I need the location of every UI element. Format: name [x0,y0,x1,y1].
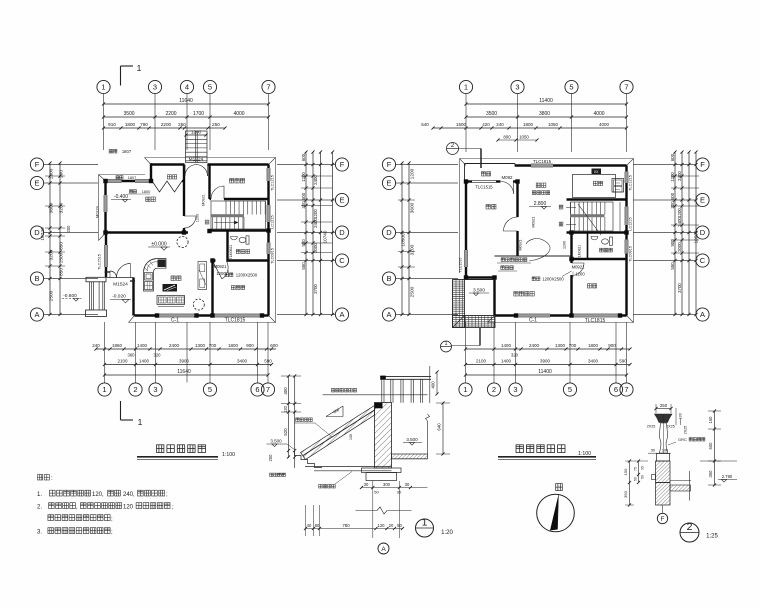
svg-text:3: 3 [515,83,519,92]
dimension chain 910/1800/790/2200/250/250 (top) [104,127,226,129]
grid bubbles top (left plan) [97,80,110,93]
svg-text:1:100: 1:100 [578,451,591,457]
svg-text:2X25: 2X25 [647,425,656,429]
svg-text:900: 900 [608,343,616,348]
grid bubbles left (left plan) [30,158,43,171]
svg-text:800: 800 [503,135,511,140]
column squares (left plan) [103,179,107,183]
svg-text:780: 780 [342,523,350,528]
label up (stairs) [559,222,563,226]
svg-text:250: 250 [212,122,220,127]
detail1 slope triangle 600 [326,416,343,418]
svg-text:GRC: GRC [678,437,687,442]
dimension chain left inner 200/3200/850/1500/850 [59,163,61,315]
svg-text:1200: 1200 [216,271,226,276]
detail2 lower pier hatched [656,483,671,506]
grid extension lines top (right plan) [465,94,467,152]
svg-text:11640: 11640 [179,98,193,104]
detail1 newel cap [380,376,386,380]
kitchen counter [144,259,167,292]
detail1 handrail [380,375,431,377]
svg-text:40: 40 [307,523,312,528]
void railing line [495,255,572,257]
wall tool-room bottom with door [210,198,212,200]
leader curve railing [526,239,550,261]
room label storage [167,175,176,179]
detail1 left dim chains [288,376,290,458]
wall bathroom left [226,231,228,262]
dimension 1200 entry [186,134,206,136]
svg-text:M0921: M0921 [519,240,523,251]
svg-text:1: 1 [101,83,105,92]
wall top (right plan) with window TLC1815 [515,164,627,166]
detail2 vase baluster [659,423,667,453]
dimension chain 3500/2200/1700/4000 (top) [104,116,269,118]
svg-text:2400: 2400 [313,175,318,185]
dimension chain bottom row2 (right plan) [466,364,631,366]
svg-text:TLC1215: TLC1215 [271,175,275,191]
svg-text:3900: 3900 [179,359,190,364]
svg-text:B: B [34,274,39,283]
svg-text:700: 700 [569,343,577,348]
detail1 node circle A [378,543,389,554]
detail1 right boundary upper [429,366,431,403]
dimension chain bottom 11640 [105,374,269,376]
wall right (left plan) with windows [267,165,269,316]
detail1 bottom dim row 40/80/780/120/20/50 [306,528,403,530]
svg-text:2400: 2400 [677,217,682,227]
dimension chains right of right plan [674,152,676,315]
svg-text:1200: 1200 [301,172,306,182]
title ground floor plan [157,445,206,453]
dimension chain 3500/3800/4000 (top right plan) [466,116,627,118]
detail2 right dim chain [714,411,716,485]
stairs (left plan) [211,201,266,229]
detail2 number circle 2 1:25 [680,523,699,542]
svg-text:7: 7 [624,83,628,92]
svg-text:1200: 1200 [677,208,682,218]
door M092 [501,182,514,195]
svg-text:1050: 1050 [548,122,559,127]
svg-text:7: 7 [266,83,270,92]
detail2 rail pier hatched [656,461,671,483]
detail2 node circle F [657,513,667,523]
wall garage top with high windows [105,180,153,182]
detail1 ramp band hatched [301,406,375,460]
dimension 400 vertical (right plan bottom left) [436,372,438,394]
svg-text:100: 100 [662,449,668,453]
svg-text:TLM0821: TLM0821 [229,245,233,260]
svg-text:120: 120 [378,523,386,528]
svg-text:50: 50 [634,477,638,481]
svg-text:LC1215: LC1215 [629,217,633,230]
room label bathroom (right plan) [600,248,613,252]
svg-text:1807: 1807 [128,176,136,180]
svg-text:M0921: M0921 [214,264,227,269]
svg-text:4000: 4000 [599,122,610,127]
svg-text:3200: 3200 [59,202,65,213]
svg-text:320: 320 [154,353,162,358]
grid extension lines right (left plan) [277,164,336,166]
room label kitchen [593,181,602,185]
dimension chain bottom row1 (right plan) [466,348,631,350]
room label bathroom [236,250,249,254]
wall corridor vertical [570,233,572,264]
svg-text:600: 600 [270,343,278,348]
svg-text:240: 240 [92,343,100,348]
svg-text:1: 1 [102,385,106,394]
wall nanny-room top with door [213,259,216,261]
svg-text:5: 5 [568,385,572,394]
svg-text:200: 200 [66,225,71,233]
detail1 stair wall hatched [375,403,392,469]
svg-text:A: A [386,310,391,319]
stair break line [578,204,601,235]
wall storage left [150,163,152,181]
svg-text:3500: 3500 [486,111,497,117]
svg-text:B: B [386,274,391,283]
svg-text:50: 50 [651,449,655,453]
grid extension lines left (right plan) [396,164,458,166]
detail1 footing [362,468,402,473]
toilet (right plan) [602,239,609,244]
room label nanny [231,286,244,290]
svg-text:400: 400 [431,381,436,389]
svg-text:3900: 3900 [540,359,551,364]
dimension chain bottom 11400 [466,374,627,376]
label high window 1800 [130,190,137,193]
notes heading [38,475,50,481]
svg-text:300: 300 [383,482,391,487]
svg-text:2X25: 2X25 [684,426,688,435]
svg-text:3: 3 [153,385,157,394]
svg-text:5: 5 [208,385,212,394]
room label bedroom1 [486,204,496,209]
svg-text:2.: 2. [37,505,42,511]
svg-text:TLC1215: TLC1215 [629,175,633,191]
svg-text:3.500: 3.500 [473,288,485,294]
grid extension lines right (right plan) [633,164,696,166]
svg-text:1400: 1400 [137,343,148,348]
svg-text:2000: 2000 [677,242,682,252]
note 2 line2 [48,515,110,521]
door M0921 bedroom2 [572,263,585,276]
svg-text:2: 2 [687,521,693,533]
svg-text:1: 1 [444,341,447,347]
svg-text:240: 240 [496,122,504,127]
detail1 dim 640 [442,403,444,454]
svg-text:1400: 1400 [139,359,150,364]
svg-text:10500: 10500 [401,233,407,247]
svg-text:1:20: 1:20 [441,530,453,536]
grid bubbles bottom (right plan) [459,383,472,396]
room label balcony [481,172,490,176]
svg-text:3: 3 [153,83,157,92]
svg-text:1400: 1400 [501,343,512,348]
svg-text:TLC1515: TLC1515 [98,254,102,270]
svg-text:2.800: 2.800 [534,201,547,207]
svg-text:850: 850 [59,242,65,250]
svg-text:5: 5 [208,83,212,92]
detail1 bottom dims 30/300/30 [362,487,428,489]
svg-text:2200: 2200 [161,122,172,127]
svg-text:590: 590 [619,359,627,364]
svg-text:3600: 3600 [410,202,416,213]
label down (stairs) [559,205,563,209]
svg-text:550: 550 [301,262,306,270]
svg-text:1200: 1200 [575,272,585,277]
wall porch east (living left) [132,278,134,316]
wall tool-room left [208,165,210,200]
svg-text:2100: 2100 [476,359,487,364]
wall left (right plan) with window [465,182,467,278]
wall below stairs [209,229,269,231]
svg-text:A: A [700,310,705,319]
svg-text:2: 2 [492,385,496,394]
wall bottom (right plan) with windows [495,314,627,316]
wall kitchen/stair top [567,198,627,200]
svg-text:2400: 2400 [169,343,180,348]
svg-text:1200: 1200 [670,172,675,182]
svg-text:A: A [339,310,344,319]
label window 1200X2500 (right plan) [532,277,540,281]
wall west of living with window TLC1515 [105,234,107,246]
hall cabinet [198,262,207,290]
label iron railing note [501,258,527,262]
svg-text:-0.020: -0.020 [112,294,126,300]
door nanny-room [213,261,223,279]
svg-text:120: 120 [283,405,288,413]
detail1 balusters paired [381,379,383,403]
north arrow circle [537,494,575,532]
svg-text:1860: 1860 [112,343,123,348]
svg-text:C: C [339,256,345,265]
svg-text:80: 80 [315,523,320,528]
north label [556,484,563,491]
svg-text:A: A [34,310,39,319]
wall void left [493,278,495,316]
label window 1200X2500 (left plan) [225,273,233,277]
svg-text:2500: 2500 [410,286,416,297]
svg-text:1700: 1700 [193,111,204,117]
wall bottom (left plan) with windows C-1 TLC1815 [135,314,269,316]
svg-text:2200: 2200 [165,111,176,117]
eave outline (right plan) [460,159,634,323]
svg-text:3.: 3. [37,530,42,536]
detail1 label railing note [331,388,356,392]
dimension chain 540/1500/420/240/1800/1050/4000 (top right plan) [433,127,627,129]
svg-text:30: 30 [364,482,369,487]
svg-text:50: 50 [397,523,402,528]
svg-text:M0921: M0921 [202,194,206,206]
grid extension lines left (left plan) [44,164,98,166]
room label living [171,276,181,281]
svg-text:150: 150 [708,416,713,424]
svg-text:1200X2500: 1200X2500 [236,273,258,278]
section mark 1 (bottom) [120,401,122,420]
svg-text:1200X2500: 1200X2500 [542,277,564,282]
svg-text:1200: 1200 [191,130,202,135]
svg-text:540: 540 [421,122,429,127]
svg-text:2400: 2400 [313,218,318,228]
svg-text:M0921: M0921 [532,217,536,228]
grid bubbles right (right plan) [696,158,709,171]
svg-text:1: 1 [138,417,143,427]
detail1 floor slab right hatched [392,454,428,459]
balcony outline (thin) [465,163,516,165]
detail1 label ceiling note [319,484,336,488]
detail1 right boundary with break [427,421,429,454]
svg-text:240,: 240, [123,492,135,498]
svg-text:1: 1 [464,83,468,92]
dimension chain bottom row1 (left plan) [96,348,276,350]
grid extension lines bottom (left plan) [104,322,106,383]
wall below stairs (right plan) [567,231,627,233]
svg-text:1300: 1300 [555,343,566,348]
room label void [514,292,535,297]
svg-text:D: D [339,228,345,237]
toilet (left plan) [239,237,246,242]
svg-text:1800: 1800 [588,343,599,348]
grid bubbles right (left plan) [335,158,348,171]
svg-text:300: 300 [301,201,306,209]
svg-text:900: 900 [301,239,306,247]
svg-text:1500: 1500 [59,252,65,263]
svg-text:E: E [34,179,39,188]
svg-text:C-1: C-1 [171,318,179,324]
svg-text:TLC1815: TLC1815 [533,159,552,164]
door M1224 double [185,165,197,177]
svg-text:10740: 10740 [323,230,328,243]
door M0921 hall [184,216,196,228]
svg-text:4: 4 [185,83,189,92]
svg-text:50: 50 [374,490,379,495]
detail1 label note bottom-left [270,473,286,476]
svg-text:700: 700 [209,343,217,348]
detail2 dim 250 [656,408,671,410]
door M1524 double arcs [110,271,117,278]
svg-text:1:25: 1:25 [706,534,718,540]
svg-text:TLC0915: TLC0915 [629,246,633,262]
svg-text:±0.000: ±0.000 [151,242,166,248]
wall balcony bottom with window TLC1515 and door M092 [466,180,472,182]
room label dining [536,183,546,188]
dimension chains left of right plan [401,163,403,315]
svg-text:LC1215: LC1215 [271,215,275,228]
svg-text:1200: 1200 [410,168,416,179]
svg-text:3700: 3700 [313,284,318,294]
column squares (right plan) [464,179,468,183]
svg-text:120,: 120, [92,492,104,498]
svg-text:600: 600 [670,153,675,161]
svg-text:900: 900 [670,239,675,247]
grid bubbles top (right plan) [459,80,472,93]
svg-text:100: 100 [349,434,353,440]
sofa [157,296,185,305]
svg-text:-0.400: -0.400 [114,194,128,200]
svg-text:20: 20 [389,523,394,528]
svg-text:30: 30 [405,482,410,487]
wall bathroom bottom (right plan) [572,258,627,260]
svg-text:C: C [700,256,706,265]
svg-text:910: 910 [108,122,116,127]
svg-text:2100: 2100 [117,359,128,364]
svg-text:3500: 3500 [123,111,134,117]
grid extension lines bottom (right plan) [465,322,467,383]
label cabinet note [532,191,549,195]
svg-text:350: 350 [623,490,628,497]
svg-text:TLC1515: TLC1515 [459,258,463,273]
stairs (right plan) [571,202,614,231]
svg-text:2400: 2400 [529,343,540,348]
svg-text:3400: 3400 [588,359,599,364]
dimension chain 11400 (top right plan) [466,103,627,105]
svg-text:1400: 1400 [501,359,512,364]
porch column pier caps [86,277,106,282]
wall nanny-room left [211,259,213,315]
svg-text:250: 250 [660,403,668,408]
svg-text:11640: 11640 [177,369,191,375]
svg-text:2000: 2000 [313,243,318,253]
svg-text:1800: 1800 [142,190,150,194]
title second floor plan [516,445,565,453]
svg-text:75: 75 [634,467,638,471]
svg-text:XX: XX [594,170,599,174]
room label tool room [230,179,245,184]
svg-text:790: 790 [140,122,148,127]
svg-text:3700: 3700 [677,283,682,293]
svg-text:200: 200 [59,170,65,178]
svg-text:M0224: M0224 [96,206,100,218]
svg-text:590: 590 [264,359,272,364]
dimension chains right of left plan [305,152,307,315]
svg-text:F: F [340,160,345,169]
wall bedroom1 right with door M0921 [516,182,518,218]
svg-text:1:100: 1:100 [222,452,235,458]
svg-text:11400: 11400 [539,98,553,104]
svg-text:M092: M092 [502,175,514,180]
detail callout 2 (balcony) [447,143,459,155]
svg-text:3600: 3600 [49,202,55,213]
svg-text:5: 5 [569,83,573,92]
svg-text:F: F [661,517,665,523]
svg-text:2500: 2500 [49,290,55,301]
grid bubbles bottom (left plan) [98,383,111,396]
detail1 number circle 1 1:20 [416,519,434,537]
door tool-room [211,186,224,199]
svg-text:7: 7 [266,385,270,394]
svg-text:4000: 4000 [233,111,244,117]
svg-text:850: 850 [59,268,65,276]
svg-text:900: 900 [246,343,254,348]
terrace top edge [465,279,495,281]
svg-text:600: 600 [301,153,306,161]
svg-text:150: 150 [623,468,628,475]
svg-text::: : [51,475,53,482]
svg-text:1050: 1050 [519,135,529,140]
svg-text:C-1: C-1 [529,318,537,324]
washbasin (left plan) [231,237,238,240]
detail2 slab right hatched [670,485,691,491]
svg-text:300: 300 [670,201,675,209]
svg-text:TLC1515: TLC1515 [475,185,493,190]
svg-text:35: 35 [641,466,645,470]
stair arrow up [214,222,238,224]
svg-text:3.500: 3.500 [270,439,282,444]
round column living 2 [193,299,204,310]
eave outline (left plan) [129,158,276,323]
svg-text:M1224: M1224 [189,157,204,163]
